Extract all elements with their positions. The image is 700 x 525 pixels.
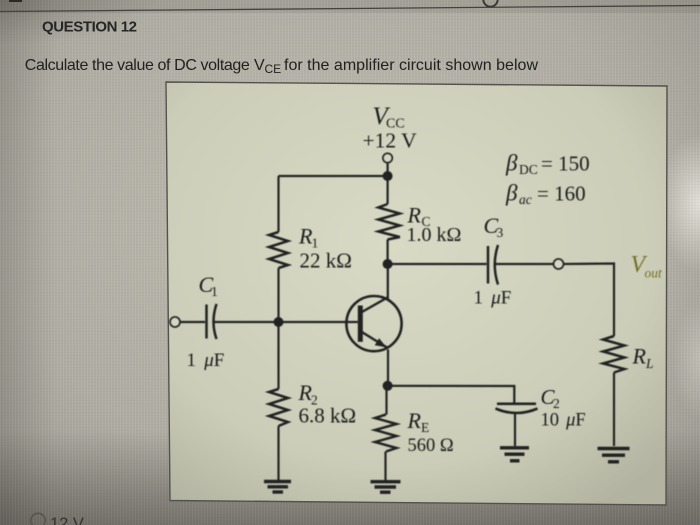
svg-text:L: L xyxy=(645,356,654,371)
ground for R2 xyxy=(264,482,291,493)
svg-text:+12 V: +12 V xyxy=(363,129,418,153)
top-left tick mark xyxy=(9,0,22,2)
transistor collector diagonal xyxy=(361,298,387,313)
transistor Q1 body xyxy=(346,296,401,351)
wire node B to R2 xyxy=(277,322,279,389)
wire Vout terminal to RL corner xyxy=(563,264,614,337)
circuit frame box xyxy=(166,82,667,505)
answer option radio button (cut off) xyxy=(31,513,45,525)
Vout terminal node xyxy=(554,259,564,269)
emitter arrowhead xyxy=(375,338,387,347)
wire C1 to node B xyxy=(213,321,274,323)
wire VCC terminal to node A xyxy=(387,163,389,174)
svg-text:E: E xyxy=(421,420,429,435)
svg-text:ac: ac xyxy=(519,192,532,207)
wire C3 to Vout terminal xyxy=(495,263,554,265)
svg-text:= 150: = 150 xyxy=(541,152,590,176)
svg-text:β: β xyxy=(505,181,518,206)
svg-text:R: R xyxy=(632,344,647,369)
svg-text:CE: CE xyxy=(265,62,282,76)
resistor R2 xyxy=(269,389,288,426)
svg-text:6.8 kΩ: 6.8 kΩ xyxy=(299,404,357,428)
svg-text:β: β xyxy=(505,151,518,176)
svg-text:1 μF: 1 μF xyxy=(474,288,512,309)
svg-text:for the amplifier circuit show: for the amplifier circuit shown below xyxy=(284,57,538,74)
node C junction dot (collector node) xyxy=(383,259,393,269)
svg-text:R: R xyxy=(407,408,422,433)
node B junction dot (base node) xyxy=(274,317,284,327)
ground for RL xyxy=(598,449,630,462)
top rule xyxy=(0,6,700,12)
wire top rail to R1 branch xyxy=(279,175,388,177)
wire R1 to node B xyxy=(277,268,279,322)
wire RE to ground xyxy=(384,452,386,481)
svg-text:DC: DC xyxy=(519,162,538,177)
wire input to C1 xyxy=(180,321,205,323)
svg-text:= 160: = 160 xyxy=(537,182,586,206)
ground for RE xyxy=(371,482,401,493)
svg-text:560 Ω: 560 Ω xyxy=(408,436,454,456)
svg-text:Calculate the value of DC volt: Calculate the value of DC voltage xyxy=(25,57,250,74)
wire R2 bottom lead xyxy=(277,426,279,480)
wire RC to node C xyxy=(387,240,389,265)
wire RC top lead xyxy=(387,176,389,204)
svg-text:12 V: 12 V xyxy=(50,515,84,525)
svg-text:22 kΩ: 22 kΩ xyxy=(300,249,352,273)
transistor emitter diagonal xyxy=(361,332,388,349)
svg-text:out: out xyxy=(645,266,664,281)
svg-text:1 μF: 1 μF xyxy=(187,350,225,371)
wire emitter lead xyxy=(387,350,389,383)
svg-text:QUESTION 12: QUESTION 12 xyxy=(42,19,137,36)
question text line xyxy=(25,57,539,76)
capacitor C3 xyxy=(488,245,498,285)
svg-text:1: 1 xyxy=(211,284,218,299)
transistor base bar xyxy=(358,306,363,342)
wire base lead xyxy=(283,321,358,323)
wire emitter node to C2 xyxy=(388,386,515,403)
wire collector lead xyxy=(387,264,389,300)
capacitor C1 xyxy=(207,304,217,339)
wire RL to ground xyxy=(613,373,615,447)
node E junction dot (emitter node) xyxy=(383,381,393,391)
wire R1 top lead xyxy=(277,176,279,232)
resistor RL xyxy=(603,336,625,373)
svg-text:3: 3 xyxy=(497,225,504,240)
circuit text labels xyxy=(187,103,664,456)
svg-text:V: V xyxy=(254,57,265,74)
ground for C2 xyxy=(500,448,529,461)
wire C2 to ground xyxy=(514,414,516,447)
capacitor C2 xyxy=(496,404,538,413)
svg-text:1.0 kΩ: 1.0 kΩ xyxy=(407,224,462,246)
svg-text:2: 2 xyxy=(553,396,560,411)
VCC terminal xyxy=(383,153,392,162)
wire emitter node to RE xyxy=(385,386,387,415)
wire node C to C3 xyxy=(388,263,487,265)
svg-text:10 μF: 10 μF xyxy=(541,411,586,431)
resistor RE xyxy=(375,415,397,452)
resistor R1 xyxy=(269,232,288,268)
timer icon partial circle xyxy=(483,0,497,7)
resistor RC xyxy=(378,204,400,240)
node A junction dot xyxy=(383,171,393,181)
input terminal xyxy=(170,317,180,327)
